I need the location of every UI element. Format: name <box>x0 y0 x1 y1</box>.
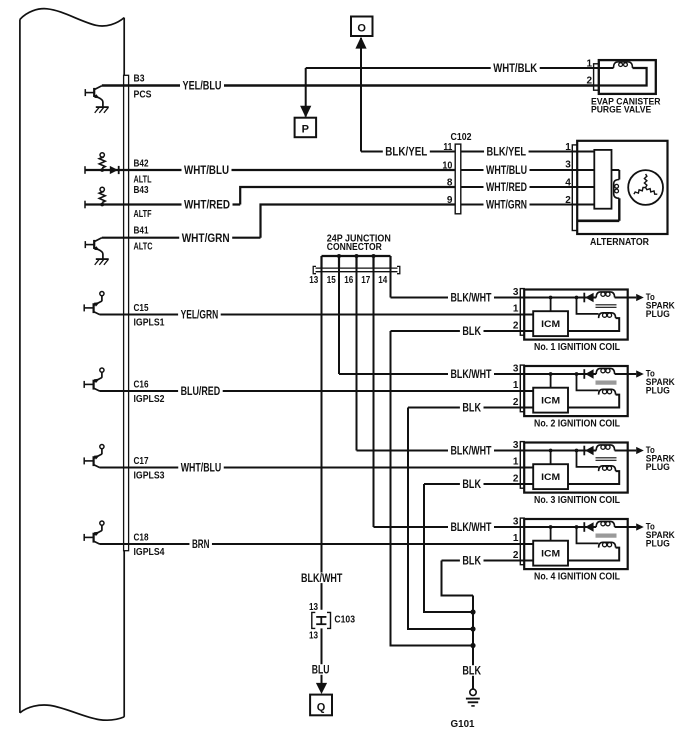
EVAP purge valve pin number 1 <box>586 59 592 70</box>
wire label WHT/RED (right) <box>484 180 530 194</box>
wire BLK/WHT leg17 to No.4 coil pin 3 <box>374 526 521 528</box>
No.1 coil secondary return path <box>568 318 619 331</box>
No.3 coil primary loop a <box>601 445 605 449</box>
No.3 coil text To <box>646 445 655 455</box>
wire label BLK (to G101) <box>460 664 484 678</box>
No.1 coil text PLUG <box>646 309 670 319</box>
alternator stator circle <box>628 170 663 205</box>
wire WHT/RED riser to C102 pin 8 <box>240 187 455 205</box>
connector C103 left bracket <box>312 612 316 628</box>
wire label BLK/WHT (No.1) <box>448 291 494 305</box>
svg-text:Q: Q <box>317 701 326 713</box>
24P junction leg 13 upper <box>320 256 322 268</box>
wire WHT/GRN riser to C102 pin 9 <box>261 205 456 238</box>
C103 pin number 13 upper <box>309 602 318 613</box>
transistor C17 base tick <box>83 457 85 464</box>
svg-text:G101: G101 <box>451 719 475 730</box>
svg-text:13: 13 <box>309 602 318 613</box>
svg-text:IGPLS1: IGPLS1 <box>134 318 165 329</box>
No.4 ignition coil connector bar <box>520 518 524 565</box>
svg-text:No. 1 IGNITION COIL: No. 1 IGNITION COIL <box>534 341 620 353</box>
No.4 coil core smear artifact <box>596 534 617 538</box>
svg-text:No. 2 IGNITION COIL: No. 2 IGNITION COIL <box>534 418 620 430</box>
component label No. 1 IGNITION COIL <box>534 341 620 353</box>
alternator stator winding lower-left <box>634 188 646 195</box>
wire label BLK/YEL <box>383 145 430 159</box>
No.2 coil ICM box <box>533 388 568 413</box>
No.1 coil pin 3 internal wire <box>520 297 597 299</box>
wire label BLK (No.1) <box>460 324 484 338</box>
component label PURGE VALVE <box>591 105 651 116</box>
pin label ALTF <box>134 209 152 220</box>
No.4 coil wire dot-to-secondary <box>577 527 599 543</box>
transistor C18 emitter riser <box>101 525 103 531</box>
junction dot on B42 wire <box>100 168 104 172</box>
No.2 coil secondary loop b <box>607 390 611 394</box>
resistor pull-up at ALTF zigzag <box>99 191 105 202</box>
svg-text:B41: B41 <box>134 226 149 237</box>
alternator voltage regulator box <box>594 150 611 209</box>
No.4 coil primary loop a <box>601 522 605 526</box>
svg-text:3: 3 <box>565 160 571 171</box>
No.1 coil primary loop b <box>606 292 610 296</box>
svg-text:IGPLS4: IGPLS4 <box>134 547 165 558</box>
svg-text:17: 17 <box>361 275 370 286</box>
svg-text:BLK: BLK <box>462 477 481 491</box>
wire WHT/BLU C102 to alternator pin 3 <box>461 169 573 171</box>
resistor ALTF terminal circle <box>100 187 104 191</box>
No.2 coil pin 3 internal wire <box>520 373 597 375</box>
wire BLU below C103 <box>321 628 323 683</box>
alternator pin number 3 <box>565 160 571 171</box>
transistor C18 emitter arrowhead <box>94 532 100 537</box>
svg-text:BLK: BLK <box>462 324 481 338</box>
wire end tick B42 <box>84 166 86 174</box>
No.4 coil ICM label <box>541 548 560 559</box>
No.4 coil pin number 2 <box>513 550 519 561</box>
svg-text:BLK/WHT: BLK/WHT <box>451 291 492 305</box>
svg-text:13: 13 <box>309 631 318 642</box>
svg-text:BLK/YEL: BLK/YEL <box>385 145 427 159</box>
transistor PCS base lead <box>85 92 93 94</box>
No.1 coil text To <box>646 292 655 302</box>
alternator pin 3 stub <box>572 169 595 171</box>
No.1 coil text SPARK <box>646 301 675 311</box>
wire WHT/GRN C102 to alternator pin 2 <box>461 204 573 206</box>
No.3 coil text PLUG <box>646 462 670 472</box>
No.3 coil wire dot-to-secondary <box>577 451 599 467</box>
diode on B42 wire triangle <box>110 166 118 174</box>
svg-text:2: 2 <box>565 195 571 206</box>
No.3 coil pin 2 internal wire <box>520 483 534 485</box>
transistor C18 supply circle <box>100 521 104 525</box>
svg-text:BLK/WHT: BLK/WHT <box>451 367 492 381</box>
svg-text:C103: C103 <box>334 614 355 625</box>
No.4 coil primary winding hump <box>596 521 614 527</box>
svg-text:15: 15 <box>327 275 336 286</box>
No.2 coil wire dot-to-ICM <box>550 374 552 388</box>
transistor C16 base lead <box>84 383 93 385</box>
No.2 coil junction dot to secondary <box>575 372 579 376</box>
No.4 coil pin 2 internal wire <box>520 560 534 562</box>
wire BLK No.4 coil drop to common node <box>442 561 474 596</box>
No.1 coil ICM box <box>533 311 568 336</box>
No.1 coil diode cathode bar <box>583 293 585 303</box>
No.1 ignition coil box <box>524 290 628 340</box>
No.2 coil junction dot to ICM <box>549 372 553 376</box>
svg-text:BLK: BLK <box>462 401 481 415</box>
No.2 coil output wire to arrow <box>628 373 637 375</box>
ECM/PCM module box wavy top edge <box>20 9 124 26</box>
EVAP purge valve solenoid coil hump <box>614 62 633 68</box>
No.3 coil primary winding hump <box>596 445 614 451</box>
No.1 coil primary out wire <box>615 297 628 299</box>
transistor C16 emitter arrowhead <box>94 379 100 384</box>
transistor ALTC emitter <box>94 247 103 259</box>
24P junction leg 17 lower <box>373 268 375 527</box>
No.2 coil diode cathode bar <box>583 369 585 379</box>
svg-text:B43: B43 <box>134 185 149 196</box>
pin label C15 <box>134 303 149 314</box>
alternator pin number 2 <box>565 195 571 206</box>
C102 pin number 9 <box>447 195 453 206</box>
svg-text:WHT/GRN: WHT/GRN <box>182 231 230 245</box>
page connector letter O <box>357 23 366 35</box>
svg-text:2: 2 <box>513 320 519 331</box>
24P junction leg 17 upper <box>372 256 374 268</box>
No.3 coil pin 3 internal wire <box>520 450 597 452</box>
pin label B41 <box>134 226 149 237</box>
transistor C17 base lead <box>84 460 93 462</box>
No.2 coil pin number 3 <box>513 364 519 375</box>
transistor C16 supply circle <box>100 368 104 372</box>
transistor C17 supply circle <box>100 445 104 449</box>
C102 pin number 11 <box>443 142 452 153</box>
transistor C17 emitter riser <box>101 449 103 455</box>
transistor PCS base bar <box>93 88 95 97</box>
wire BLK/WHT leg16 to No.3 coil pin 3 <box>357 450 521 452</box>
pin label IGPLS4 <box>134 547 165 558</box>
wire WHT/BLU (C17 to No.3 coil pin 1) <box>100 467 534 469</box>
alternator rotor field wire lower segment <box>618 198 620 221</box>
alternator rotor field wire upper segment <box>618 170 620 180</box>
svg-text:PURGE VALVE: PURGE VALVE <box>591 105 651 116</box>
No.3 coil diode cathode bar <box>583 446 585 456</box>
wire BLK No.1 coil drop <box>391 331 474 646</box>
No.2 coil primary out wire <box>615 373 628 375</box>
pin label B42 <box>134 158 149 169</box>
No.2 coil core smear artifact <box>596 381 617 385</box>
No.1 coil pin 2 internal wire <box>520 330 534 332</box>
No.1 coil pin number 1 <box>513 304 519 315</box>
No.4 coil diode cathode bar <box>583 522 585 532</box>
ECM/PCM module box right edge <box>123 18 125 717</box>
ground label G101 <box>451 719 475 730</box>
No.2 ignition coil connector bar <box>520 365 524 412</box>
24P junction pin number 14 <box>378 275 387 286</box>
24P junction leg 14 upper <box>389 256 391 268</box>
No.4 coil diode triangle <box>585 522 593 531</box>
No.1 coil secondary loop b <box>607 313 611 317</box>
svg-text:BRN: BRN <box>192 537 210 551</box>
No.2 coil text PLUG <box>646 385 670 395</box>
svg-text:B3: B3 <box>134 73 145 84</box>
24P junction connector strip right bracket <box>397 266 400 273</box>
wire BLK/WHT leg14 to No.1 coil pin 3 <box>391 297 521 299</box>
alternator field coil hump <box>614 180 620 199</box>
transistor C18 base tick <box>83 534 85 541</box>
No.3 coil pin number 2 <box>513 473 519 484</box>
No.3 coil secondary loop a <box>603 466 607 470</box>
svg-text:WHT/RED: WHT/RED <box>184 198 230 212</box>
No.3 coil primary loop b <box>606 445 610 449</box>
transistor C15 base bar <box>92 303 94 313</box>
svg-text:3: 3 <box>513 440 519 451</box>
resistor pull-up at ALTL zigzag <box>99 157 105 168</box>
transistor C15 emitter arrowhead <box>94 302 100 307</box>
ground under ALTC transistor hatch 1 <box>95 259 100 265</box>
wire BLK/YEL C102 to alternator pin 1 <box>461 151 573 153</box>
No.4 coil transformer core line 2 <box>596 536 617 538</box>
No.1 coil secondary loop a <box>603 313 607 317</box>
wire WHT/RED (ALTF B43) horizontal from pin <box>85 203 240 205</box>
No.1 coil pin number 2 <box>513 320 519 331</box>
No.1 coil arrowhead to spark plug <box>636 294 644 301</box>
svg-text:WHT/BLU: WHT/BLU <box>184 163 229 177</box>
junction dot BLK node coil3 <box>470 609 475 614</box>
svg-text:No. 4 IGNITION COIL: No. 4 IGNITION COIL <box>534 571 620 583</box>
EVAP purge valve internal wire to coil <box>593 67 614 69</box>
wire label BLK/WHT (No.3) <box>448 444 494 458</box>
transistor ALTC base tick <box>84 241 86 248</box>
24P junction connector strip bottom line <box>316 271 398 273</box>
ground G101 terminal circle <box>470 689 476 695</box>
svg-text:YEL/GRN: YEL/GRN <box>181 308 219 322</box>
C103 pin number 13 lower <box>309 631 318 642</box>
No.3 coil pin number 3 <box>513 440 519 451</box>
No.2 coil primary winding hump <box>596 368 614 374</box>
connector C102 strip <box>455 144 461 214</box>
No.1 coil diode triangle <box>585 293 593 302</box>
wire BLK/YEL riser to O <box>360 38 362 152</box>
No.4 coil junction dot to secondary <box>575 525 579 529</box>
transistor C18 base bar <box>92 533 94 543</box>
wire label WHT/BLU (right) <box>484 163 530 177</box>
24P junction leg 15 lower <box>338 268 340 374</box>
connector C103 upper T bar <box>316 616 326 618</box>
svg-text:IGPLS3: IGPLS3 <box>134 471 165 482</box>
transistor C17 emitter up <box>94 454 102 458</box>
EVAP purge valve internal return path <box>593 68 647 86</box>
svg-text:3: 3 <box>513 364 519 375</box>
ground G101 bar 2 <box>468 701 479 703</box>
No.4 ignition coil box <box>524 519 628 569</box>
No.1 coil pin 1 internal wire <box>520 314 534 316</box>
svg-text:2: 2 <box>513 473 519 484</box>
transistor C17 base bar <box>92 456 94 466</box>
ECM/PCM module box wavy bottom edge <box>20 705 124 720</box>
svg-text:B42: B42 <box>134 158 149 169</box>
svg-text:C18: C18 <box>134 532 149 543</box>
No.2 coil pin number 1 <box>513 380 519 391</box>
wire label WHT/GRN (ALTC) <box>179 231 232 245</box>
label CONNECTOR <box>327 241 382 253</box>
wire BLK No.1 coil pin 2 horizontal <box>391 330 521 332</box>
pin label C16 <box>134 379 149 390</box>
No.1 coil junction dot to secondary <box>575 296 579 300</box>
wire WHT/RED C102 to alternator pin 4 <box>461 186 573 188</box>
No.1 coil primary winding hump <box>596 292 614 298</box>
svg-text:BLK: BLK <box>462 664 481 678</box>
No.4 coil pin 1 internal wire <box>520 543 534 545</box>
svg-text:BLK/YEL: BLK/YEL <box>487 145 527 159</box>
svg-text:No. 3 IGNITION COIL: No. 3 IGNITION COIL <box>534 494 620 506</box>
page connector letter Q <box>317 701 326 713</box>
wire label BLK/WHT (No.4) <box>448 520 494 534</box>
No.3 coil pin 1 internal wire <box>520 467 534 469</box>
pin label IGPLS2 <box>134 394 165 405</box>
svg-text:ICM: ICM <box>541 548 560 559</box>
arrowhead into Q <box>316 683 327 694</box>
svg-text:13: 13 <box>309 275 318 286</box>
svg-text:WHT/GRN: WHT/GRN <box>486 198 527 212</box>
svg-text:ICM: ICM <box>541 472 560 483</box>
No.3 coil transformer core line 2 <box>596 459 617 461</box>
No.3 coil pin number 1 <box>513 457 519 468</box>
transistor PCS output (B3) base tick <box>84 89 86 96</box>
wire end tick B43 <box>84 201 86 209</box>
svg-text:ICM: ICM <box>541 319 560 330</box>
ground under PCS transistor hatch 3 <box>104 107 109 113</box>
transistor C15 supply circle <box>100 292 104 296</box>
No.2 ignition coil box <box>524 366 628 416</box>
No.3 ignition coil connector bar <box>520 442 524 489</box>
svg-text:1: 1 <box>513 304 519 315</box>
alternator field coil loop b <box>615 189 619 193</box>
svg-text:IGPLS2: IGPLS2 <box>134 394 165 405</box>
EVAP purge valve pin number 2 <box>586 75 592 86</box>
pin label ALTC <box>134 242 153 253</box>
No.2 coil text SPARK <box>646 377 675 387</box>
transistor C16 collector to pin wire <box>94 388 100 391</box>
wire BLK No.3 coil pin 2 horizontal <box>424 483 520 485</box>
junction dot on bus at leg 15 <box>337 254 341 258</box>
svg-text:2: 2 <box>586 75 592 86</box>
page connector box P <box>295 118 317 138</box>
svg-text:C17: C17 <box>134 456 149 467</box>
ground G101 bar 3 <box>471 705 474 707</box>
alternator pin number 4 <box>565 178 571 189</box>
No.1 coil secondary winding hump <box>599 313 616 318</box>
wire YEL/BLU (PCS B3 to EVAP purge valve pin 2) <box>102 84 594 87</box>
alternator stator winding up <box>644 174 647 188</box>
svg-text:WHT/BLK: WHT/BLK <box>493 61 537 75</box>
svg-text:O: O <box>357 23 366 35</box>
wire BLU/RED (C16 to No.2 coil pin 1) <box>100 390 534 392</box>
wire BLK No.2 coil drop <box>408 408 473 630</box>
wire label BLU/RED <box>178 384 223 398</box>
alternator pin number 1 <box>565 142 571 153</box>
alternator stator winding lower-right <box>646 188 658 195</box>
No.3 coil arrowhead to spark plug <box>636 447 644 454</box>
ground G101 bar 1 <box>466 698 480 700</box>
svg-text:BLK/WHT: BLK/WHT <box>301 571 343 585</box>
wire WHT/BLU (ALTL B42 to C102 pin 10) <box>85 169 455 171</box>
transistor C17 collector to pin wire <box>94 465 100 468</box>
svg-text:PLUG: PLUG <box>646 309 670 319</box>
No.1 coil wire dot-to-ICM <box>550 298 552 312</box>
No.4 coil text To <box>646 522 655 532</box>
No.3 coil output wire to arrow <box>628 450 637 452</box>
24P junction pin number 16 <box>344 275 353 286</box>
ground under ALTC transistor hatch 2 <box>99 259 104 265</box>
No.2 coil arrowhead to spark plug <box>636 370 644 377</box>
pin label C17 <box>134 456 149 467</box>
ground under PCS transistor hatch 1 <box>95 107 100 113</box>
wire label BLK (No.2) <box>460 401 484 415</box>
wire label WHT/BLU (ALTL) <box>182 163 232 177</box>
pin label ALTL <box>134 175 152 186</box>
connector C103 lower T bar <box>316 623 326 625</box>
wire BLK/WHT leg15 to No.2 coil pin 3 <box>339 373 520 375</box>
No.3 ignition coil box <box>524 443 628 493</box>
wire label BLK/WHT (No.2) <box>448 367 494 381</box>
connector label C102 <box>451 132 472 143</box>
wire label YEL/GRN <box>178 308 221 322</box>
ECM connector strip <box>124 75 129 550</box>
transistor C18 base lead <box>84 536 93 538</box>
transistor C16 base tick <box>83 381 85 388</box>
No.2 coil primary loop a <box>601 369 605 373</box>
No.3 coil secondary winding hump <box>599 466 616 471</box>
pin label PCS <box>134 90 152 101</box>
svg-text:10: 10 <box>442 161 452 172</box>
svg-text:2: 2 <box>513 550 519 561</box>
svg-text:WHT/BLU: WHT/BLU <box>181 461 222 475</box>
No.2 coil wire dot-to-secondary <box>577 374 599 390</box>
transistor C15 base tick <box>83 304 85 311</box>
svg-text:1: 1 <box>513 380 519 391</box>
svg-text:ALTF: ALTF <box>134 209 152 220</box>
alternator box <box>577 141 667 234</box>
No.4 coil text SPARK <box>646 530 675 540</box>
svg-text:BLU/RED: BLU/RED <box>181 384 221 398</box>
svg-text:3: 3 <box>513 287 519 298</box>
wire YEL/GRN (C15 to No.1 coil pin 1) <box>100 314 534 316</box>
junction dot BLK node coil1 <box>470 643 475 648</box>
component label No. 4 IGNITION COIL <box>534 571 620 583</box>
ground under PCS transistor hatch 2 <box>99 107 104 113</box>
transistor C15 emitter up <box>94 301 102 305</box>
No.1 coil ICM label <box>541 319 560 330</box>
svg-text:BLK: BLK <box>462 554 481 568</box>
No.2 coil secondary return path <box>568 395 619 408</box>
svg-text:9: 9 <box>447 195 453 206</box>
No.4 coil transformer core line 1 <box>596 533 617 535</box>
transistor C18 collector to pin wire <box>94 541 100 544</box>
24P junction leg 15 upper <box>338 256 340 268</box>
connector C103 stem <box>320 617 322 624</box>
No.3 coil secondary return path <box>568 471 619 484</box>
ground under ALTC transistor hatch 3 <box>104 259 109 265</box>
24P junction connector strip left bracket <box>313 266 316 273</box>
24P junction connector top bus bar <box>322 255 391 257</box>
svg-text:16: 16 <box>344 275 353 286</box>
No.4 coil junction dot to ICM <box>549 525 553 529</box>
No.2 coil ICM label <box>541 395 560 406</box>
alternator rotor field wire top <box>612 169 620 171</box>
EVAP purge valve connector bar <box>594 64 599 90</box>
